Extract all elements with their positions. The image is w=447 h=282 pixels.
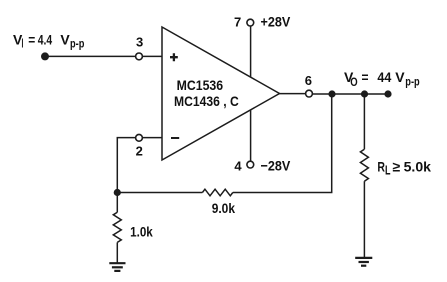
pin 2 terminal (136, 134, 143, 141)
svg-text:6: 6 (305, 73, 312, 88)
op-amp part number MC1436 , C (174, 93, 239, 109)
label VI = 4.4 Vp-p (13, 31, 84, 50)
wire pin 6 to output terminal (312, 93, 388, 95)
svg-text:R: R (377, 158, 385, 174)
svg-text:≥: ≥ (392, 158, 400, 174)
label 1.0k (130, 224, 153, 240)
svg-text:9.0k: 9.0k (212, 200, 235, 216)
label VO = 44 Vp-p (344, 69, 420, 89)
wire resistor 9.0k to output node riser (233, 94, 332, 193)
svg-text:p-p: p-p (405, 74, 419, 88)
resistor 1.0k (113, 212, 121, 242)
svg-text:MC1536: MC1536 (177, 77, 224, 93)
resistor RL (360, 149, 368, 181)
pin 7 label (234, 14, 241, 29)
pin 6 terminal (306, 90, 313, 97)
pin 3 label (136, 34, 143, 49)
svg-text:=: = (362, 69, 369, 85)
node feedback ground junction (114, 189, 121, 196)
pin 4 label (234, 158, 242, 173)
wire junction to resistor 1.0k (116, 193, 118, 213)
svg-text:1.0k: 1.0k (130, 224, 153, 240)
svg-text:+28V: +28V (261, 13, 291, 29)
svg-text:V: V (395, 69, 405, 85)
wire resistor 1.0k to ground (116, 242, 118, 262)
wire load junction to resistor RL (363, 94, 365, 149)
wire pin 3 to op-amp noninverting input (142, 55, 161, 57)
ground right (355, 258, 372, 266)
label -28V (261, 157, 291, 173)
svg-text:p-p: p-p (70, 36, 84, 50)
wire op-amp inverting input to left corner (117, 138, 161, 193)
svg-text:MC1436 , C: MC1436 , C (174, 93, 239, 109)
wire op-amp output to pin 6 (280, 93, 306, 95)
pin 4 terminal (247, 161, 254, 168)
op-amp noninverting input plus symbol (170, 53, 178, 61)
label 9.0k (212, 200, 235, 216)
pin 7 terminal (247, 19, 254, 26)
svg-text:3: 3 (136, 34, 143, 49)
svg-text:4.4: 4.4 (38, 31, 53, 47)
svg-text:5.0k: 5.0k (404, 158, 432, 174)
svg-text:=: = (28, 31, 35, 47)
svg-text:I: I (22, 37, 24, 51)
svg-text:4: 4 (234, 158, 242, 173)
wire VI to pin 3 (45, 55, 136, 57)
node feedback junction (328, 90, 335, 97)
wire op-amp negative supply to pin 4 (250, 110, 252, 161)
label +28V (261, 13, 291, 29)
ground left (109, 263, 125, 271)
wire resistor RL to ground (363, 181, 365, 257)
svg-text:V: V (60, 31, 70, 47)
svg-text:44: 44 (377, 69, 391, 85)
wire junction to resistor 9.0k (117, 192, 202, 194)
label RL >= 5.0k (377, 158, 431, 177)
svg-text:O: O (350, 75, 357, 89)
op-amp U1 MC1536 triangle (162, 27, 280, 160)
op-amp part number MC1536 (177, 77, 224, 93)
wire pin 7 to op-amp positive supply (250, 27, 252, 78)
node VO output terminal (384, 90, 391, 97)
pin 2 label (136, 143, 143, 158)
resistor 9.0k (202, 189, 232, 196)
svg-text:−28V: −28V (261, 157, 291, 173)
svg-text:7: 7 (234, 14, 241, 29)
node VI input terminal (41, 52, 49, 60)
op-amp inverting input minus symbol (171, 137, 179, 139)
pin 3 terminal (136, 53, 143, 60)
node load junction (361, 90, 368, 97)
pin 6 label (305, 73, 312, 88)
svg-text:2: 2 (136, 143, 143, 158)
svg-text:L: L (385, 163, 391, 177)
